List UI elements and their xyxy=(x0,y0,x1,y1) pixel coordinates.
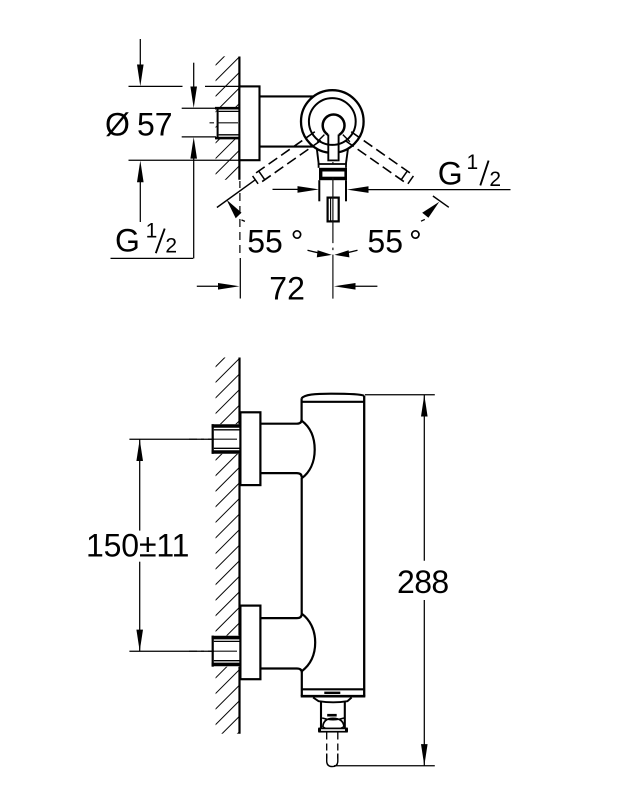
svg-text:1: 1 xyxy=(146,220,158,243)
svg-text:2: 2 xyxy=(165,234,177,257)
svg-text:Ø: Ø xyxy=(105,106,130,142)
svg-text:55: 55 xyxy=(247,224,283,260)
svg-text:°: ° xyxy=(291,224,304,260)
svg-text:1: 1 xyxy=(467,151,479,174)
svg-text:G: G xyxy=(115,223,140,259)
svg-text:°: ° xyxy=(409,224,422,260)
svg-text:55: 55 xyxy=(367,224,403,260)
svg-text:72: 72 xyxy=(269,270,305,306)
svg-text:G: G xyxy=(438,155,463,191)
svg-text:2: 2 xyxy=(489,168,501,191)
svg-text:57: 57 xyxy=(137,106,173,142)
svg-text:288: 288 xyxy=(397,564,449,600)
svg-text:150±11: 150±11 xyxy=(86,528,189,564)
